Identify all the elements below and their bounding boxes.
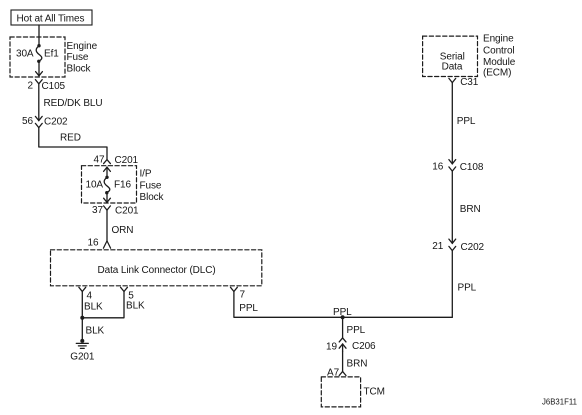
DLC pin 16 fork (opening down) (103, 241, 110, 248)
wire ORN to DLC pin 16 (106, 210, 108, 241)
svg-text:C201: C201 (115, 155, 139, 166)
svg-text:4: 4 (87, 290, 93, 301)
svg-text:Block: Block (67, 64, 92, 75)
svg-text:21: 21 (432, 241, 443, 252)
svg-text:37: 37 (92, 205, 103, 216)
svg-text:7: 7 (240, 290, 246, 301)
svg-text:BLK: BLK (86, 325, 105, 336)
wire from Hot box to fuse Ef1 (38, 25, 40, 46)
svg-text:30A: 30A (16, 48, 34, 59)
DLC pin 4 fork (79, 287, 86, 291)
svg-text:BRN: BRN (460, 204, 481, 215)
svg-text:C105: C105 (42, 81, 66, 92)
svg-text:C206: C206 (352, 341, 376, 352)
svg-text:BLK: BLK (84, 301, 103, 312)
svg-text:PPL: PPL (239, 303, 258, 314)
down-arrow at bottom of I/P fuse block (106, 193, 108, 203)
svg-text:19: 19 (326, 342, 337, 353)
ground G201 (80, 339, 84, 343)
svg-text:F16: F16 (114, 180, 131, 191)
connector C206 up-arrow (342, 344, 344, 351)
svg-text:Data: Data (442, 62, 463, 73)
svg-text:Block: Block (140, 192, 165, 203)
Engine Fuse Block box (10, 37, 65, 77)
junction dot pins 4/5 (80, 316, 84, 320)
wire pin4 BLK down (81, 292, 83, 341)
svg-text:10A: 10A (86, 180, 104, 191)
wire PPL from C31 down to C108 (451, 83, 453, 164)
wire BRN down to TCM (342, 351, 344, 371)
svg-text:Fuse: Fuse (67, 52, 89, 63)
junction dot PPL branch (341, 315, 345, 319)
connector C206 fork (opening down) (339, 338, 346, 342)
up-arrow into I/P fuse block (106, 167, 108, 177)
svg-text:PPL: PPL (333, 307, 352, 318)
I/P Fuse Block box (82, 166, 137, 203)
svg-text:PPL: PPL (457, 116, 476, 127)
svg-text:C202: C202 (44, 117, 68, 128)
svg-text:C31: C31 (460, 77, 479, 88)
DLC pin 7 fork (231, 287, 238, 291)
svg-text:PPL: PPL (347, 325, 366, 336)
svg-text:J6B31F11: J6B31F11 (542, 397, 577, 406)
wire PPL from C202 down to horizontal run (451, 251, 453, 318)
svg-text:C108: C108 (460, 162, 484, 173)
node: Hot at All Times box (11, 10, 92, 25)
svg-text:TCM: TCM (364, 387, 385, 398)
connector C201-47 fork (opening down) (104, 160, 111, 164)
svg-text:C202: C202 (461, 242, 485, 253)
wire pin7 PPL down then right (234, 292, 452, 318)
svg-text:47: 47 (94, 154, 105, 165)
DLC pin 5 fork (121, 287, 128, 291)
svg-text:56: 56 (22, 116, 33, 127)
svg-text:A7: A7 (327, 368, 340, 379)
wire pin5 BLK down and left to junction (82, 292, 124, 318)
svg-text:ORN: ORN (112, 225, 134, 236)
svg-text:Engine: Engine (67, 41, 98, 52)
Engine Control Module (ECM) box (423, 36, 478, 76)
wire BRN from C108 to C202 (451, 171, 453, 243)
svg-text:C201: C201 (115, 206, 139, 217)
wire with down-arrow at bottom of Engine Fuse Block (38, 61, 40, 76)
wire C105 to C202 arrow (38, 84, 40, 121)
svg-text:16: 16 (432, 162, 443, 173)
connector C31 fork (449, 78, 456, 82)
TCM box (321, 377, 360, 407)
svg-text:Ef1: Ef1 (44, 48, 59, 59)
svg-text:RED/DK BLU: RED/DK BLU (44, 98, 103, 109)
connector C201-37 fork (104, 206, 111, 210)
svg-text:16: 16 (88, 238, 99, 249)
svg-text:BRN: BRN (347, 359, 368, 370)
connector C202 fork (35, 123, 42, 127)
TCM pin A7 fork (opening down) (339, 372, 346, 376)
svg-text:Engine: Engine (483, 34, 514, 45)
svg-text:RED: RED (60, 133, 81, 144)
svg-text:BLK: BLK (126, 301, 145, 312)
wire C202 down then right (RED) (39, 128, 107, 160)
svg-text:(ECM): (ECM) (483, 67, 511, 78)
fuse Ef1 30A (37, 44, 40, 47)
connector C108 fork (449, 167, 456, 171)
connector C202-21 fork (449, 246, 456, 250)
svg-text:PPL: PPL (458, 283, 477, 294)
Data Link Connector (DLC) box (51, 250, 262, 286)
connector C105 fork (35, 80, 42, 84)
svg-text:Control: Control (483, 45, 515, 56)
wire PPL branch down to C206 (342, 317, 344, 338)
svg-text:G201: G201 (70, 351, 95, 362)
svg-text:Data Link Connector (DLC): Data Link Connector (DLC) (98, 265, 216, 276)
svg-text:2: 2 (28, 81, 34, 92)
svg-text:Fuse: Fuse (140, 180, 162, 191)
svg-text:I/P: I/P (140, 168, 152, 179)
svg-text:Hot at All Times: Hot at All Times (17, 13, 85, 24)
fuse F16 10A (105, 176, 108, 179)
